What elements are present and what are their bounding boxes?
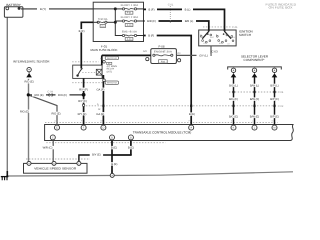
- svg-text:A/D: A/D: [143, 50, 147, 53]
- svg-text:B/P (L): B/P (L): [270, 84, 278, 87]
- svg-text:C-04: C-04: [47, 90, 53, 93]
- svg-text:EMS +B 10A: EMS +B 10A: [122, 31, 137, 34]
- svg-text:IG KEY 1 30A: IG KEY 1 30A: [121, 4, 139, 7]
- svg-text:A: A: [97, 103, 99, 106]
- svg-text:ENGINE 30A: ENGINE 30A: [154, 51, 172, 54]
- svg-text:C-01: C-01: [232, 26, 238, 29]
- svg-text:B: B: [53, 162, 55, 165]
- svg-text:W/R (C): W/R (C): [43, 147, 53, 150]
- svg-text:B: B: [130, 136, 132, 139]
- svg-text:INTERMEDIATE SENSOR: INTERMEDIATE SENSOR: [13, 60, 50, 64]
- svg-text:C-04: C-04: [278, 91, 284, 94]
- svg-text:R/O (E): R/O (E): [51, 112, 60, 115]
- svg-text:TRANSAXLE CONTROL MODULE (TCM): TRANSAXLE CONTROL MODULE (TCM): [133, 131, 192, 135]
- svg-text:R/Y (F): R/Y (F): [79, 88, 88, 91]
- svg-text:GA (F): GA (F): [96, 88, 104, 91]
- svg-text:B/G (E): B/G (E): [229, 115, 238, 118]
- svg-text:B (Y): B (Y): [40, 8, 46, 11]
- svg-text:F-01: F-01: [127, 12, 132, 15]
- svg-text:R/O (E): R/O (E): [20, 110, 29, 113]
- svg-text:D: D: [102, 127, 104, 130]
- svg-text:C: C: [78, 162, 80, 165]
- svg-text:B (E): B (E): [128, 147, 134, 150]
- svg-text:B/W (E): B/W (E): [250, 115, 260, 118]
- svg-text:A: A: [28, 162, 30, 165]
- svg-text:B/W (L): B/W (L): [250, 84, 259, 87]
- svg-text:GA (E): GA (E): [96, 113, 104, 116]
- svg-text:B/G (L): B/G (L): [229, 84, 238, 87]
- svg-text:K: K: [233, 127, 235, 130]
- svg-text:BATTERY: BATTERY: [6, 3, 21, 7]
- svg-text:MAIN FUSE BLOCK: MAIN FUSE BLOCK: [91, 48, 118, 52]
- svg-text:B/R (L): B/R (L): [185, 20, 194, 23]
- svg-text:C-01: C-01: [168, 4, 174, 7]
- svg-text:B: B: [111, 136, 113, 139]
- svg-text:IG KEY 2 30A: IG KEY 2 30A: [121, 16, 139, 19]
- svg-text:R/Y (F): R/Y (F): [78, 100, 87, 103]
- svg-text:M: M: [273, 127, 275, 130]
- svg-text:F24: F24: [101, 25, 104, 28]
- svg-text:B (E): B (E): [111, 163, 117, 166]
- svg-text:C-03: C-03: [211, 49, 218, 53]
- svg-text:COMPONENT*: COMPONENT*: [244, 58, 266, 62]
- svg-text:R/O (F): R/O (F): [58, 94, 67, 97]
- svg-text:R/O (E): R/O (E): [34, 94, 43, 97]
- svg-text:B (F): B (F): [149, 8, 155, 11]
- svg-text:AF: AF: [98, 108, 102, 111]
- svg-text:B (E): B (E): [111, 147, 117, 150]
- svg-text:(A/T): (A/T): [107, 70, 113, 73]
- svg-text:A/D: A/D: [176, 52, 180, 55]
- svg-text:B/G (F): B/G (F): [229, 98, 238, 101]
- svg-text:B/P (E): B/P (E): [270, 115, 279, 118]
- svg-text:C: C: [52, 136, 54, 139]
- svg-text:IG1: IG1: [219, 42, 222, 45]
- svg-text:B (F): B (F): [148, 35, 154, 38]
- svg-text:B/P (F): B/P (F): [270, 98, 279, 101]
- svg-text:F-10: F-10: [127, 24, 132, 27]
- svg-text:B (L): B (L): [185, 8, 191, 11]
- svg-text:B/Y (E): B/Y (E): [92, 154, 101, 157]
- svg-text:TCM 15A: TCM 15A: [98, 18, 108, 21]
- svg-text:R/Y (E): R/Y (E): [78, 113, 87, 116]
- svg-text:IG2: IG2: [232, 36, 235, 39]
- svg-text:WHT/2-02: WHT/2-02: [107, 57, 118, 60]
- svg-text:C-02: C-02: [278, 105, 284, 108]
- svg-text:ON FUSE BOX: ON FUSE BOX: [269, 6, 293, 10]
- svg-text:R/O (E): R/O (E): [25, 81, 34, 84]
- svg-text:A: A: [111, 174, 113, 177]
- svg-text:A: A: [100, 57, 102, 60]
- svg-text:B (F): B (F): [79, 30, 85, 33]
- svg-text:A: A: [190, 127, 192, 130]
- svg-text:F-08: F-08: [159, 45, 165, 49]
- svg-text:E: E: [56, 127, 58, 130]
- svg-text:B (E): B (E): [189, 113, 195, 116]
- svg-text:G/Y (L): G/Y (L): [199, 54, 208, 57]
- svg-text:B/W (F): B/W (F): [250, 98, 259, 101]
- svg-text:SWITCH: SWITCH: [239, 33, 251, 37]
- svg-text:F-20: F-20: [127, 38, 132, 41]
- svg-text:B/R (F): B/R (F): [147, 20, 156, 23]
- svg-text:VEHICLE SPEED SENSOR: VEHICLE SPEED SENSOR: [34, 167, 76, 171]
- svg-text:WHT/2-02: WHT/2-02: [107, 82, 118, 85]
